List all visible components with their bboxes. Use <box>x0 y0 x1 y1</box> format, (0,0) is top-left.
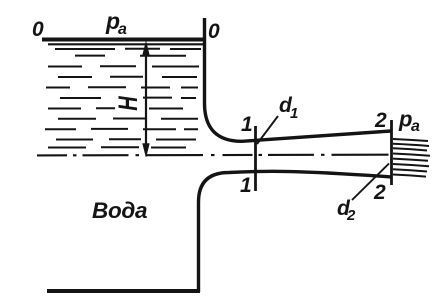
section line 2-2 <box>390 120 393 185</box>
water hatching dashes row 5 <box>46 86 198 88</box>
tank right upper wall with entrance curve into pipe top wall <box>205 18 392 141</box>
svg-text:a: a <box>411 118 420 135</box>
water hatching dashes row 6 <box>60 97 196 99</box>
outlet jet hatching line 5 <box>393 159 428 161</box>
outlet jet hatching line 2 <box>393 144 429 146</box>
secondary water surface line <box>48 43 204 45</box>
water hatching dashes row 3 <box>48 65 199 67</box>
leader line for d2 <box>352 164 389 201</box>
leader line for d1 <box>257 116 278 144</box>
svg-text:H: H <box>113 95 142 110</box>
water hatching dashes row 8 <box>58 118 198 120</box>
tank lower right wall with curve into pipe bottom wall <box>199 171 392 292</box>
outlet jet hatching line 7 <box>393 169 427 171</box>
water hatching dashes row 7 <box>48 107 183 109</box>
svg-text:1: 1 <box>240 174 252 197</box>
outlet jet hatching line 6 <box>393 164 429 166</box>
svg-text:Вода: Вода <box>92 198 147 223</box>
outlet jet hatching line 8 <box>393 175 426 177</box>
svg-text:a: a <box>118 21 127 38</box>
centerline (dash-dot axis) <box>37 154 392 157</box>
svg-text:1: 1 <box>290 105 298 122</box>
water hatching dashes row 4 <box>58 76 197 78</box>
water hatching dashes row 9 <box>45 128 198 130</box>
svg-text:1: 1 <box>241 113 253 136</box>
water surface line (datum 0-0) <box>42 38 205 42</box>
outlet jet hatching line 1 <box>393 139 428 141</box>
svg-text:2: 2 <box>374 109 387 132</box>
svg-text:2: 2 <box>373 181 386 204</box>
water hatching dashes row 11 <box>48 146 186 148</box>
svg-text:2: 2 <box>346 207 356 224</box>
svg-text:0: 0 <box>208 20 220 43</box>
water hatching dashes row 10 <box>56 138 196 140</box>
tank bottom wall <box>47 289 200 293</box>
water hatching dashes row 1 <box>55 48 201 50</box>
water hatching dashes row 2 <box>75 55 186 57</box>
outlet jet hatching line 3 <box>393 148 427 150</box>
section line 1-1 <box>254 126 257 191</box>
dimension H arrow (double headed vertical) <box>143 42 150 158</box>
outlet jet hatching line 4 <box>393 154 430 156</box>
